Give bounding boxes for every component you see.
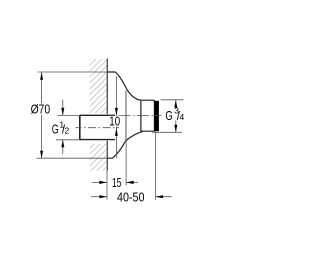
svg-text:Ø70: Ø70 — [31, 101, 51, 116]
bell escutcheon bottom outline — [107, 131, 143, 158]
dim 40-50 arrowhead left — [156, 195, 164, 198]
outlet collar — [141, 100, 155, 131]
dim 10 vertical line — [115, 77, 117, 158]
wall hatch upper — [90, 59, 108, 113]
dim G1/2 arrows — [62, 100, 64, 155]
wall hatch lower — [90, 144, 108, 171]
dim 15 arrowhead left — [126, 181, 134, 184]
thread black band — [154, 101, 159, 131]
dim G3/4 vertical — [175, 100, 177, 132]
dim d70 arrowhead up — [40, 72, 43, 80]
dim 15 arrowhead right — [99, 181, 107, 184]
wall face line — [106, 59, 108, 171]
dim 40-50 right tail line — [156, 196, 172, 198]
dim G3/4 arrowhead down — [174, 125, 177, 133]
dim G3/4 arrowhead up — [174, 100, 177, 108]
extension line bottom (d70 / bell base) — [37, 157, 109, 159]
extension line right (from thread band) — [155, 133, 157, 200]
outlet axis centerline — [119, 114, 162, 116]
svg-text:2: 2 — [65, 125, 70, 135]
svg-text:G: G — [52, 121, 59, 136]
dim 10 arrowhead down (outlet axis) — [115, 108, 118, 116]
dim G1/2 arrowhead down — [61, 108, 64, 116]
pipe top extension line — [58, 114, 80, 116]
extension line top (d70) — [38, 71, 109, 73]
wall face extension line down — [106, 171, 108, 200]
dim 15 right tail line — [126, 181, 138, 183]
label 10 background mask — [108, 116, 121, 126]
dim 40-50 left tail line — [91, 196, 107, 198]
pipe bottom extension line — [56, 139, 80, 141]
svg-text:40-50: 40-50 — [117, 190, 145, 205]
svg-text:G: G — [165, 108, 172, 123]
pipe axis centerline — [76, 127, 120, 129]
svg-text:10: 10 — [109, 114, 120, 129]
pipe (G1/2 nipple) — [80, 115, 115, 139]
dim G1/2 arrowhead up — [61, 140, 64, 148]
dim 15 left tail line — [92, 181, 107, 183]
dim G3/4 extensions — [161, 99, 184, 101]
bell front rim line — [125, 91, 127, 141]
svg-text:15: 15 — [112, 175, 122, 190]
rim extension down to 15-dim — [125, 141, 127, 186]
dim d70 arrowhead down — [40, 151, 43, 159]
svg-text:4: 4 — [180, 112, 185, 122]
dim d70 vertical line — [41, 72, 43, 158]
dim 10 arrowhead up (pipe axis) — [115, 128, 118, 136]
bell escutcheon top outline — [107, 72, 141, 100]
dim 40-50 arrowhead right — [99, 195, 107, 198]
